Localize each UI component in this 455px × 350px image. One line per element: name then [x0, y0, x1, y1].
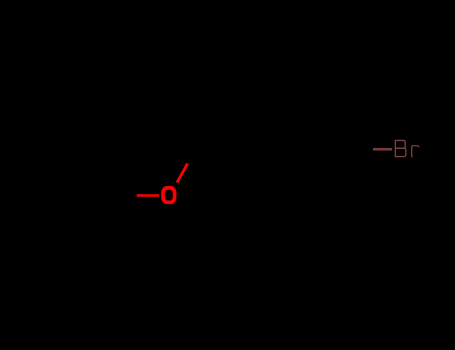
bond: O-CH2 black half continuing to benzylic carbon	[188, 150, 195, 164]
phenyl ring (left benzene ring, black bonds on black bg)	[27, 150, 133, 242]
atom Br (bromine label)	[395, 140, 419, 158]
bond: CH2 - right ring (black)	[195, 148, 237, 151]
Br letter B stem	[394, 140, 396, 157]
Br letter r stem and arm	[412, 146, 419, 158]
bond: C1-O ether bond, red segment	[137, 194, 160, 197]
benzene ring (right, 4-bromophenyl, black bonds on black bg)	[237, 104, 343, 196]
bond: C4-Br dark red segment	[373, 148, 392, 151]
bond: C4-Br black half	[343, 148, 373, 150]
atom O1 (ether oxygen label)	[161, 186, 176, 204]
Br letter B bottom bowl	[395, 148, 406, 156]
Br letter B top bowl	[395, 140, 405, 148]
bond: O-CH2 red segment	[177, 163, 188, 182]
bond: phenyl C1 - O (black half)	[133, 194, 137, 197]
